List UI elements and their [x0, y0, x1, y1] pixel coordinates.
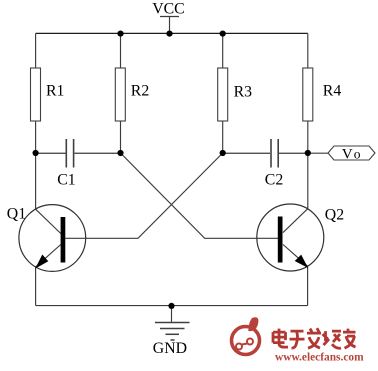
svg-text:R3: R3 [234, 83, 253, 100]
svg-text:R4: R4 [323, 83, 342, 100]
svg-text:VCC: VCC [152, 1, 184, 18]
svg-text:C2: C2 [265, 171, 284, 188]
svg-text:Q2: Q2 [325, 206, 344, 223]
svg-text:GND: GND [153, 340, 187, 357]
svg-text:www.elecfans.com: www.elecfans.com [275, 352, 364, 364]
svg-text:o: o [354, 147, 361, 162]
svg-text:V: V [342, 146, 353, 163]
svg-text:R2: R2 [131, 83, 150, 100]
svg-text:C1: C1 [57, 172, 75, 189]
svg-text:R1: R1 [46, 83, 64, 100]
svg-text:Q1: Q1 [7, 206, 26, 223]
